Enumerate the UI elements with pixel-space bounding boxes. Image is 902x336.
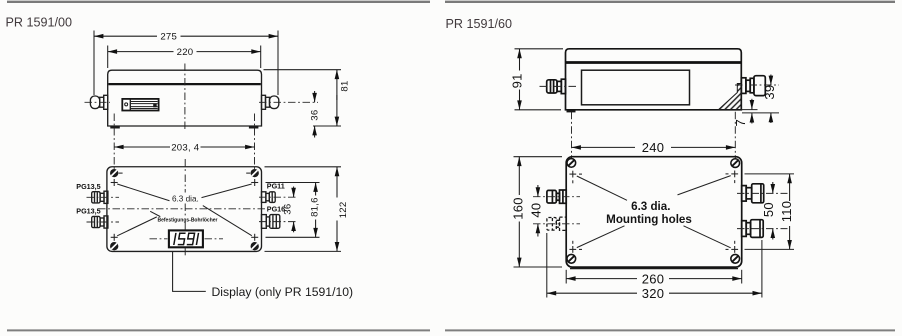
right gland centerline / ext for 36: [259, 101, 318, 103]
svg-text:6.3 dia.: 6.3 dia.: [172, 194, 199, 203]
svg-text:320: 320: [642, 286, 665, 301]
svg-text:81,6: 81,6: [310, 197, 321, 217]
svg-text:81: 81: [339, 80, 350, 91]
diagonal leader top-right: [678, 176, 731, 195]
svg-text:260: 260: [642, 271, 665, 286]
ext lines 275: [93, 31, 95, 96]
gland PG13,5 upper left: [92, 191, 108, 203]
centerline PG16: [259, 221, 297, 223]
mounting hole cross bottom-right: [726, 241, 739, 253]
dimension 91: [519, 49, 521, 71]
corner screw bottom-left: [110, 242, 118, 250]
top rule left segment: [7, 1, 430, 3]
gland PG11 upper right: [262, 192, 276, 203]
right cable gland side view: [741, 76, 765, 96]
diagonal leader bottom-right: [203, 206, 252, 236]
dimension 260: [566, 278, 637, 280]
svg-text:39: 39: [762, 85, 777, 100]
left foot axis: [113, 114, 115, 171]
seven-segment digits 1591: [174, 233, 199, 245]
dimension 160: [518, 157, 520, 195]
svg-text:Mounting holes: Mounting holes: [606, 213, 692, 226]
right cable gland side view: [262, 95, 279, 109]
left cable gland side view: [547, 79, 566, 93]
mounting hole cross top-left: [569, 171, 582, 184]
left gland centerline: [540, 85, 577, 87]
bottom edge shadow line: [570, 268, 738, 270]
bottom rule left segment: [7, 329, 430, 331]
housing side view: [566, 49, 742, 110]
centerline lower-left gland: [533, 223, 580, 225]
face plate: [122, 99, 158, 111]
svg-text:36: 36: [282, 204, 293, 215]
lid joint line: [108, 83, 260, 85]
corner screw top-right: [246, 169, 259, 177]
dimension 50: [772, 182, 774, 193]
left hole axis: [571, 112, 573, 166]
gland PG16 lower right: [262, 215, 280, 229]
diagonal leader bottom-right: [684, 226, 731, 248]
dimension 240: [572, 146, 636, 148]
vertical centerline side view: [184, 64, 186, 132]
dimension 81: [336, 70, 338, 100]
svg-text:240: 240: [642, 140, 665, 155]
dimension 81,6: [315, 183, 317, 196]
dimension 203,4: [114, 146, 170, 148]
centerline upper-left gland: [533, 196, 580, 198]
dimension 110: [789, 174, 791, 201]
svg-text:Befestigungs-Bohrlöcher: Befestigungs-Bohrlöcher: [157, 217, 217, 223]
ext lines 91: [515, 48, 564, 50]
bottom rule right segment: [445, 329, 895, 331]
svg-text:40: 40: [528, 203, 543, 218]
centerline lower-left gland: [87, 221, 120, 223]
ext line 39 bottom: [742, 112, 779, 114]
ext lines 220: [107, 46, 109, 69]
recessed panel: [582, 70, 690, 105]
dimension 220: [108, 51, 174, 53]
gland upper left top view: [547, 190, 566, 203]
hatched mounting bracket: [719, 84, 742, 110]
dimension 39: [770, 75, 772, 86]
svg-text:PR 1591/00: PR 1591/00: [6, 16, 73, 30]
housing top view: [566, 157, 742, 267]
bottom ext line right: [741, 109, 757, 111]
display centerline: [150, 238, 224, 240]
display window: [169, 230, 203, 247]
mounting hole cross top-right: [251, 179, 258, 186]
left gland centerline: [85, 101, 111, 103]
diagonal stub: [150, 211, 160, 216]
left foot: [110, 126, 120, 129]
corner screw bottom-right: [251, 242, 259, 250]
right gland centerline / ext for 39: [735, 84, 779, 86]
ext lines hole rows: [266, 182, 320, 184]
left cable gland side view: [90, 95, 107, 109]
ext lines overall height: [265, 166, 342, 168]
display leader: [173, 252, 206, 292]
svg-text:PG13,5: PG13,5: [76, 206, 100, 215]
svg-text:220: 220: [177, 47, 194, 58]
svg-text:91: 91: [509, 73, 524, 88]
corner screw top-right: [731, 159, 740, 168]
corner screw top-left: [110, 169, 123, 177]
right foot axis: [254, 114, 256, 171]
corner screw bottom-right: [731, 254, 740, 263]
dimension 36 top view: [293, 187, 295, 198]
ext lines 260: [565, 270, 567, 284]
svg-text:110: 110: [779, 201, 794, 223]
corner screw top-left: [567, 159, 576, 168]
centerline upper-right gland: [737, 192, 788, 194]
dimension 40: [537, 185, 539, 197]
svg-text:PR 1591/60: PR 1591/60: [446, 17, 513, 31]
centerline upper-left gland: [87, 196, 120, 198]
svg-text:6.3 dia.: 6.3 dia.: [631, 200, 670, 213]
dimension 7: [751, 99, 753, 110]
diagonal leader bottom-left: [117, 217, 157, 236]
dimension 275: [94, 35, 157, 37]
diagonal leader bottom-left: [577, 226, 625, 248]
gland lower right top view: [742, 220, 763, 238]
corner screw bottom-left: [567, 254, 576, 263]
svg-text:275: 275: [160, 32, 177, 43]
mounting hole cross bottom-left: [111, 234, 118, 241]
svg-text:50: 50: [761, 202, 776, 217]
svg-text:36: 36: [309, 110, 320, 121]
svg-text:160: 160: [511, 197, 526, 220]
right hole axis: [734, 112, 736, 166]
lid joint line: [566, 61, 742, 64]
gland lower left dashed (hidden): [547, 217, 566, 230]
mounting hole cross top-right: [726, 171, 739, 184]
svg-text:122: 122: [338, 202, 349, 219]
ext lines 110: [745, 173, 795, 175]
top rule right segment: [445, 1, 895, 3]
centerline lower-right gland: [737, 228, 788, 230]
svg-text:PG11: PG11: [267, 182, 285, 191]
housing side view: [108, 70, 262, 126]
ext lines 320: [546, 233, 548, 298]
svg-text:203, 4: 203, 4: [171, 143, 200, 154]
diagonal leader top-left: [577, 176, 627, 200]
right foot: [249, 126, 259, 129]
svg-text:PG13,5: PG13,5: [76, 182, 100, 191]
centerline PG11: [259, 196, 297, 198]
gland PG13,5 lower left: [92, 216, 108, 228]
ext lines 81: [264, 69, 342, 71]
diagonal leader top-right: [202, 184, 252, 198]
mounting hole cross bottom-left: [569, 241, 582, 253]
mounting hole cross bottom-right: [251, 234, 258, 241]
gland upper right top view: [742, 184, 764, 203]
housing top view: [107, 167, 262, 252]
diagonal leader top-left: [117, 184, 169, 201]
vertical centerline top view: [184, 159, 186, 258]
dimension 320: [547, 292, 637, 294]
mounting hole cross top-left: [111, 179, 118, 186]
horizontal centerline top view: [98, 208, 268, 210]
ext lines 160: [514, 156, 563, 158]
left foot: [567, 110, 576, 113]
dimension 36 side view: [314, 91, 316, 102]
svg-text:Display (only PR 1591/10): Display (only PR 1591/10): [212, 285, 354, 299]
dimension 122: [336, 167, 338, 198]
